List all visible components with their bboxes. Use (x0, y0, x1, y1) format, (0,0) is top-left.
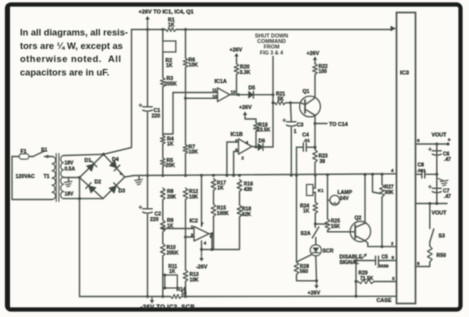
resistor R9 (161, 220, 166, 232)
svg-text:R50: R50 (437, 253, 447, 259)
resistor R15 (211, 204, 216, 217)
diode D3 (109, 186, 117, 194)
wire SCR gate to R28 top (297, 254, 313, 262)
junction left vertex (78, 176, 81, 179)
resistor R13 (183, 270, 188, 282)
svg-text:C5: C5 (382, 254, 389, 260)
svg-text:1K: 1K (167, 142, 174, 148)
wire stub TO C14 (315, 123, 327, 125)
wire R15 down to IC2 output rail (213, 217, 215, 250)
capacitor C2 (143, 208, 153, 210)
wire R16 to R18 (239, 192, 241, 206)
svg-text:24V: 24V (340, 196, 350, 202)
svg-text:10: 10 (181, 291, 187, 297)
resistor R20 (236, 58, 238, 64)
resistor R28 (294, 262, 299, 275)
wire R50 to IC3 pin8 (416, 262, 430, 267)
arrow +26V R20 (236, 55, 238, 59)
junction bus / IC1B pin6 (232, 174, 235, 177)
wire D5 to shutdown node (254, 94, 274, 96)
junction bus / IC1B pin5 (225, 174, 228, 177)
svg-text:VOUT: VOUT (432, 211, 448, 217)
wire top rail to R6 (185, 30, 187, 59)
diode D1 (86, 164, 94, 172)
svg-text:+26V: +26V (308, 290, 321, 296)
svg-text:.001: .001 (417, 168, 426, 173)
arrow into IC3 pin (391, 26, 397, 31)
wire case column vertical (355, 261, 357, 297)
junction pin2 wire / R27 (381, 245, 384, 248)
wire bus to C2 (147, 176, 149, 209)
junction R9 bottom / IC2 pin2 wire (161, 227, 164, 230)
wire IC1B output (252, 146, 258, 149)
wire bottom -26V rail (80, 296, 171, 298)
junction bus / jog column (371, 173, 374, 176)
svg-text:+: + (448, 138, 452, 144)
resistor R2 (box symbol) (163, 41, 176, 52)
svg-text:S3: S3 (439, 234, 445, 240)
resistor R6 (183, 58, 188, 68)
junction IC2 output (211, 232, 214, 235)
wire left vertical from top rail to bridge (104, 30, 132, 155)
svg-text:2: 2 (241, 155, 244, 160)
resistor R1 (in top rail) (166, 28, 177, 32)
junction output rail (211, 248, 214, 251)
resistor R22 (314, 62, 316, 64)
junction IC2 pin3 node (184, 236, 187, 239)
wire node to IC2 pin 3 (186, 236, 195, 238)
regulator IC3 body (397, 13, 416, 304)
transistor Q1 (300, 96, 321, 117)
switch S2A (314, 224, 316, 228)
svg-text:+26V: +26V (230, 48, 243, 54)
wire IC1B pin5 input (227, 142, 239, 175)
svg-text:SCR: SCR (323, 248, 334, 254)
wire C6 column (436, 144, 438, 204)
svg-text:10K: 10K (189, 63, 199, 69)
junction bus / C3 (290, 174, 293, 177)
svg-text:-26V: -26V (196, 265, 208, 271)
svg-text:D1: D1 (85, 158, 92, 164)
junction +VOUT terminal (447, 143, 450, 146)
wire +26V to R19 (245, 116, 256, 123)
svg-text:FIG 3 & 4: FIG 3 & 4 (260, 50, 283, 56)
junction bus / R27 column (381, 173, 384, 176)
svg-text:D2: D2 (95, 180, 102, 186)
svg-text:+26V: +26V (239, 105, 252, 111)
wire top +26V rail (132, 29, 166, 31)
resistor R5 (161, 158, 166, 167)
wire shutdown command vertical (272, 57, 274, 95)
svg-text:S1: S1 (41, 147, 47, 153)
relay K1 box (307, 185, 314, 196)
wire C1 to ground bus (147, 113, 149, 176)
junction bus / C1-C2 column (146, 174, 149, 177)
svg-text:23.5K: 23.5K (257, 128, 271, 134)
resistor R3 (161, 78, 166, 88)
svg-text:D6: D6 (259, 138, 266, 144)
svg-text:.0039: .0039 (377, 263, 389, 268)
capacitor C5 (375, 256, 377, 265)
junction on secondary-bottom wire (78, 197, 81, 200)
svg-text:9: 9 (392, 255, 395, 260)
junction top rail / R6 column (184, 28, 187, 31)
junction bus / R5-R8 column (161, 174, 164, 177)
svg-text:VOUT: VOUT (432, 133, 448, 139)
wire C4 left corner down across bus to SCR gate and R28 (296, 147, 298, 262)
wire IC2 V- down (201, 241, 203, 250)
junction bus / IC2 V+ column (200, 174, 203, 177)
resistor R17 (211, 179, 216, 191)
svg-text:1K: 1K (166, 63, 173, 69)
fuse F1 (12, 156, 19, 158)
svg-text:20K: 20K (166, 163, 176, 169)
wire K1 to R24 (314, 193, 316, 203)
switch S3 (430, 229, 434, 242)
switch S1 (29, 156, 33, 158)
wire R19 to D6 node (255, 132, 257, 148)
wire secondary bottom to bridge bottom vertex (64, 198, 104, 200)
svg-text:+: + (120, 173, 123, 178)
svg-text:IC3: IC3 (400, 71, 410, 77)
wire R6 to IC1A pin 10 node (185, 68, 187, 99)
ground center tap (68, 178, 70, 182)
wire bus to IC2 pin7 (201, 175, 203, 226)
wire +26V column down to C1 (147, 30, 149, 107)
junction bus / Q2 collector (364, 173, 367, 176)
junction bus / lamp column (326, 173, 329, 176)
wire R23 to ground bus (314, 163, 316, 176)
svg-text:7: 7 (201, 221, 204, 226)
svg-text:In all diagrams, all resis-: In all diagrams, all resis- (20, 28, 128, 38)
junction bottom rail / R11 (161, 295, 164, 298)
svg-text:D4: D4 (112, 157, 119, 163)
resistor R27 (381, 174, 383, 184)
wire R9 node to IC2 pin 2 (163, 228, 194, 230)
diode D2 (88, 186, 96, 194)
svg-text:Q2: Q2 (355, 216, 362, 222)
resistor R4 (161, 136, 166, 145)
wire VOUT row to S3 (429, 204, 431, 229)
wire base into Q1 (291, 102, 301, 104)
wire R18 down and left to IC2 output rail (202, 217, 240, 250)
svg-text:.47: .47 (444, 194, 451, 200)
svg-text:5K: 5K (278, 96, 285, 102)
svg-text:K1: K1 (318, 188, 324, 193)
wire R13 column (185, 237, 187, 270)
svg-text:Q1: Q1 (303, 89, 310, 95)
junction bus / R16 column (238, 174, 241, 177)
resistor R18 (237, 205, 242, 217)
junction bus / R17 column (212, 174, 215, 177)
resistor R11 (box symbol) (165, 275, 178, 288)
resistor R21 (273, 102, 275, 104)
svg-text:6: 6 (417, 138, 420, 143)
junction shutdown node (272, 93, 275, 96)
wire D6 to shutdown vertical (263, 146, 273, 148)
svg-text:220: 220 (150, 217, 159, 223)
svg-text:71.5K: 71.5K (360, 276, 374, 282)
svg-text:1K: 1K (169, 269, 176, 275)
junction R21 on shutdown vertical (272, 101, 275, 104)
svg-text:CASE: CASE (377, 298, 392, 304)
resistor R12 (183, 188, 188, 200)
svg-text:39: 39 (320, 159, 326, 165)
wire left vertex down to bottom rail (79, 178, 81, 297)
junction bus / R7-R12 column (184, 174, 187, 177)
wire top rail to R2 box (162, 30, 164, 42)
capacitor C1 (143, 106, 153, 108)
junction C4 / emitter column (314, 146, 317, 149)
op-amp IC2 (194, 227, 209, 242)
svg-text:62K: 62K (242, 212, 252, 218)
svg-text:1K: 1K (217, 186, 224, 192)
bridge rectifier diamond (80, 154, 104, 177)
junction +26V SCR node (315, 279, 318, 282)
svg-text:D5: D5 (249, 85, 256, 91)
junction bridge top vertex (102, 153, 105, 156)
svg-text:D3: D3 (119, 188, 126, 194)
svg-text:430: 430 (244, 187, 253, 193)
svg-text:5: 5 (235, 139, 238, 144)
wire jog from bus to R27 column (373, 174, 381, 193)
ground symbol on bus left end (138, 176, 140, 180)
svg-text:otherwise noted. All: otherwise noted. All (20, 54, 121, 64)
wire R12 to IC2 pin3 node (185, 200, 187, 238)
svg-text:220: 220 (152, 114, 161, 120)
op-amp IC1A (218, 88, 230, 102)
wire R20 to IC1A output node (236, 75, 238, 95)
wire R17 to R15 (213, 191, 215, 205)
junction top rail / +26V arrow column (146, 28, 149, 31)
arrow +26V into top rail (147, 18, 149, 30)
resistor R14 (in bottom rail) (171, 295, 182, 299)
junction S1 to T1 (46, 155, 49, 158)
wire R4 to R5 (162, 144, 164, 158)
svg-text:0.5A: 0.5A (65, 167, 76, 173)
svg-text:1: 1 (294, 129, 297, 135)
capacitor C8 row (416, 173, 422, 175)
junction S3 column / VOUT- row (428, 202, 431, 205)
node SHUT DOWN COMMAND label (255, 33, 288, 56)
junction bus / C4 column (295, 174, 298, 177)
svg-text:+26V TO IC1, IC4, Q1: +26V TO IC1, IC4, Q1 (139, 10, 194, 16)
junction C6 column / C8 row (435, 173, 438, 176)
junction C6 column / VOUT- row (435, 202, 438, 205)
junction pin6 row / C6 column (435, 143, 438, 146)
wire bus to K1 (314, 175, 316, 188)
diode D6 (258, 144, 263, 151)
svg-text:205K: 205K (165, 82, 178, 88)
capacitor C6 (432, 150, 441, 152)
wire IC1B pin6 input (234, 152, 239, 176)
svg-text:.47: .47 (444, 157, 451, 163)
junction bottom rail / case column (355, 295, 358, 298)
svg-text:560: 560 (300, 269, 309, 275)
svg-text:T1: T1 (44, 174, 50, 180)
wire R22 to Q1 collector (314, 75, 316, 98)
svg-text:10K: 10K (189, 194, 199, 200)
wire IC1A output (230, 94, 239, 96)
svg-text:20K: 20K (167, 194, 177, 200)
svg-text:C4: C4 (302, 133, 309, 139)
capacitor C4 (297, 146, 304, 148)
diode D4 (109, 160, 117, 168)
wire R9 to R10 (162, 232, 164, 244)
svg-text:IC1A: IC1A (215, 79, 227, 85)
junction IC1A output / R20 (237, 93, 240, 96)
op-amp IC1B (239, 139, 252, 154)
wire R27 to pin2 wire (381, 197, 383, 247)
svg-text:-26V TO IC2, SCR: -26V TO IC2, SCR (141, 305, 196, 311)
svg-text:15K: 15K (331, 224, 341, 230)
junction bus / R23-K1 column (314, 174, 317, 177)
svg-text:4: 4 (204, 240, 207, 245)
svg-text:3.3K: 3.3K (240, 70, 251, 76)
SCR Q3 (315, 238, 317, 246)
svg-text:IC1B: IC1B (231, 132, 243, 138)
wire R29 to IC3 pin3 (374, 281, 397, 283)
transistor Q2 (350, 221, 370, 241)
wire secondary top to bridge top vertex (64, 154, 104, 155)
arrow -26V supply label (151, 298, 153, 303)
ground symbol right side (437, 178, 443, 181)
wire Q2 collector to bus (364, 175, 366, 224)
wire R10 to R11 (162, 256, 164, 275)
wire IC3 pin6 output row (416, 143, 449, 145)
svg-text:+26V: +26V (307, 51, 320, 57)
svg-text:1K: 1K (303, 209, 310, 215)
resistor R23 (313, 150, 318, 163)
junction bottom rail / C2 column (146, 295, 149, 298)
wire IC1A pin11 branch joining R4 top (163, 93, 173, 135)
wire C5 to IC3 pin9 (379, 260, 397, 262)
svg-text:4: 4 (391, 168, 394, 173)
junction IC1A pin10 node (184, 97, 187, 100)
svg-text:tors are ¼ W, except as: tors are ¼ W, except as (20, 41, 123, 51)
notice text block (20, 28, 128, 78)
junction TO C14 node (314, 122, 317, 125)
wire C4 right plate to Q1 emitter column (306, 146, 315, 148)
svg-text:100K: 100K (217, 211, 229, 217)
junction top rail / R2 column (161, 28, 164, 31)
wire IC2 output (209, 233, 212, 235)
wire R13 to bottom rail (185, 282, 187, 297)
wire C3 to ground bus (290, 128, 292, 176)
junction case column / C5 (355, 259, 358, 262)
wire IC2 output down to -26V rail stub (211, 234, 213, 250)
wire VOUT- row (416, 203, 448, 205)
svg-text:13: 13 (231, 90, 236, 95)
resistor R50 (429, 242, 431, 246)
wire SCR cathode down (315, 256, 318, 281)
wire C5 row from case column (356, 260, 376, 262)
svg-text:3: 3 (392, 276, 395, 281)
wire Q1 emitter to TO-C14 node (314, 115, 316, 124)
wire IC1A pin10 input (186, 97, 218, 99)
wire R25 to Q2 base (328, 231, 351, 232)
svg-text:TO C14: TO C14 (329, 122, 348, 128)
svg-text:18V: 18V (65, 192, 75, 198)
arrow -26V below IC2 (201, 251, 203, 261)
junction V- node (200, 248, 203, 251)
wire Q2 emitter to IC3 pin2 (365, 241, 397, 247)
svg-text:8: 8 (417, 261, 420, 266)
resistor R7 (183, 145, 188, 154)
wire main ground bus (125, 174, 397, 177)
junction R19 / IC1B output (255, 146, 258, 149)
svg-text:F1: F1 (21, 149, 27, 155)
svg-text:10K: 10K (190, 277, 200, 283)
wire mains left loop (12, 157, 52, 200)
wire R5 to ground bus (162, 167, 164, 176)
diode D5 (239, 94, 249, 96)
wire node to R7 (185, 98, 187, 144)
junction bottom rail / R13 (184, 295, 187, 298)
resistor R29 row (356, 281, 358, 283)
wire R24 to S2A node (314, 214, 316, 225)
wire IC1A pin11 input (173, 92, 218, 94)
svg-text:C3: C3 (297, 123, 304, 129)
resistor R8 (161, 188, 166, 200)
svg-text:205K: 205K (167, 250, 179, 256)
resistor R25 (325, 219, 330, 231)
wire shutdown node down to D6 output (272, 95, 274, 147)
resistor R10 (161, 244, 166, 257)
svg-text:.01: .01 (303, 138, 310, 144)
wire node to R23 (314, 124, 316, 150)
resistor R24 (313, 202, 318, 214)
junction S2A top node (314, 223, 317, 226)
wire S2A node to R25 column (315, 223, 327, 225)
wire bus to lamp and R25 (327, 175, 329, 219)
wire R3 to R4 (162, 87, 164, 136)
lamp 24V (330, 195, 340, 205)
junction case column / R29 row (355, 280, 358, 283)
resistor R19 (254, 123, 259, 132)
svg-text:30K: 30K (385, 190, 395, 196)
wire secondary center tap to bridge left vertex (64, 177, 80, 179)
arrow +26V below SCR (316, 282, 318, 288)
capacitor C7 (432, 187, 441, 189)
junction R21 / C3 node (286, 102, 291, 104)
svg-text:capacitors are in uF.: capacitors are in uF. (20, 67, 109, 77)
wire R7 to ground bus (185, 154, 187, 176)
svg-text:100: 100 (319, 69, 328, 75)
resistor R16 (237, 180, 242, 192)
svg-text:1K: 1K (168, 23, 175, 29)
svg-text:10K: 10K (189, 150, 199, 156)
svg-text:120VAC: 120VAC (16, 174, 35, 180)
wire R8 to R9 (162, 200, 164, 220)
arrow +26V R22 (314, 58, 316, 62)
wire R2 to R3 (162, 52, 164, 78)
wire C2 to bottom rail (147, 215, 149, 297)
arrow disable signal (362, 255, 366, 259)
svg-text:S2A: S2A (301, 231, 311, 237)
arrow +26V R19 feed (244, 113, 246, 116)
wire R28 to +26V node (297, 275, 317, 281)
svg-text:2: 2 (391, 241, 394, 246)
capacitor C3 (290, 103, 293, 122)
